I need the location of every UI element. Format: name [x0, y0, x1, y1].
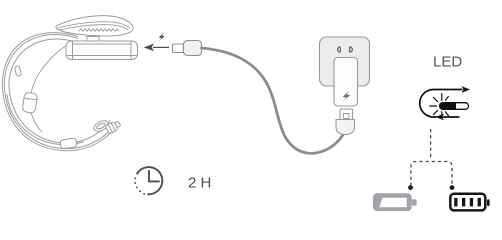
svg-text:2 H: 2 H — [188, 175, 211, 192]
svg-text:LED: LED — [433, 54, 462, 71]
